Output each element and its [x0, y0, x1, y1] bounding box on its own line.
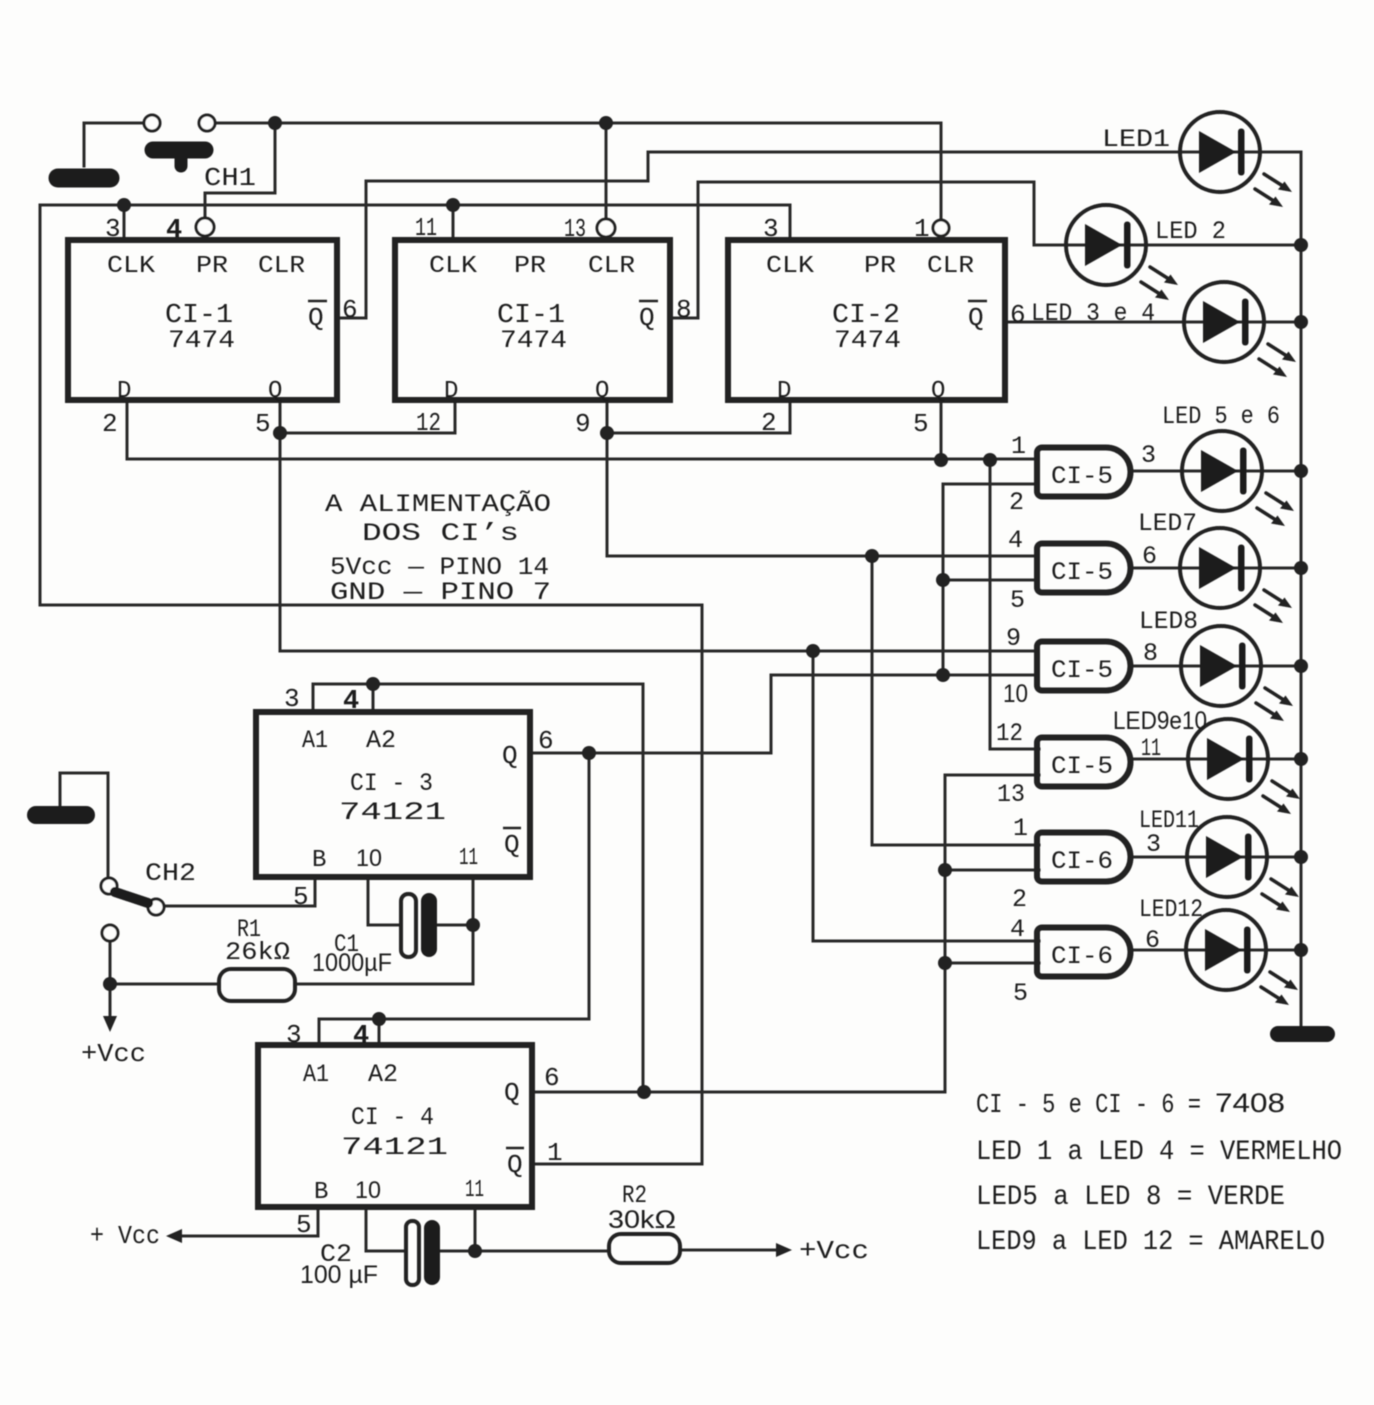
svg-text:A1: A1 [303, 1060, 329, 1089]
svg-text:CLR: CLR [927, 253, 974, 280]
svg-text:LED1: LED1 [1102, 125, 1170, 154]
svg-text:5: 5 [913, 409, 929, 439]
svg-text:CI-5: CI-5 [1051, 752, 1113, 781]
svg-text:5: 5 [296, 1210, 312, 1240]
svg-text:D: D [777, 378, 791, 405]
svg-text:CLK: CLK [429, 253, 478, 280]
svg-text:PR: PR [514, 253, 546, 280]
svg-text:Q: Q [502, 741, 518, 771]
svg-text:11: 11 [465, 1177, 484, 1204]
svg-text:6: 6 [1142, 542, 1157, 571]
svg-text:CI - 3: CI - 3 [350, 769, 433, 798]
svg-text:LED 1 a LED 4 = VERMELHO: LED 1 a LED 4 = VERMELHO [976, 1137, 1342, 1168]
svg-text:Q: Q [504, 1078, 520, 1108]
svg-text:1: 1 [1011, 432, 1026, 461]
svg-text:5: 5 [293, 882, 309, 912]
svg-text:3: 3 [286, 1020, 302, 1050]
svg-text:8: 8 [1143, 639, 1158, 668]
svg-text:CI-5: CI-5 [1051, 558, 1113, 587]
svg-text:6: 6 [1010, 300, 1026, 330]
svg-text:Q: Q [504, 830, 520, 860]
svg-text:CI-6: CI-6 [1051, 847, 1113, 876]
svg-text:LED11: LED11 [1139, 806, 1199, 835]
svg-text:7474: 7474 [168, 326, 235, 355]
svg-text:6: 6 [1145, 926, 1160, 955]
svg-text:4: 4 [1008, 526, 1023, 555]
svg-text:Q: Q [308, 303, 324, 333]
svg-text:CLK: CLK [107, 253, 156, 280]
svg-text:D: D [444, 378, 458, 405]
svg-text:CI-5: CI-5 [1051, 462, 1113, 491]
svg-text:B: B [314, 1179, 328, 1206]
svg-text:11: 11 [1141, 734, 1161, 763]
svg-text:2: 2 [1009, 488, 1024, 517]
svg-text:2: 2 [102, 409, 118, 439]
svg-text:13: 13 [564, 214, 586, 244]
svg-text:A2: A2 [366, 726, 396, 755]
svg-text:12: 12 [416, 408, 441, 438]
svg-text:4: 4 [353, 1022, 369, 1052]
svg-text:GND — PINO 7: GND — PINO 7 [330, 578, 551, 607]
svg-text:1: 1 [914, 214, 930, 244]
svg-text:CI - 4: CI - 4 [351, 1103, 434, 1132]
svg-text:74121: 74121 [341, 1133, 448, 1162]
svg-text:LED 3 e 4: LED 3 e 4 [1031, 299, 1155, 328]
svg-text:74121: 74121 [339, 798, 446, 827]
svg-text:PR: PR [864, 253, 896, 280]
svg-text:Q: Q [639, 303, 655, 333]
svg-text:CLR: CLR [258, 253, 305, 280]
svg-text:B: B [312, 847, 326, 874]
svg-text:3: 3 [105, 214, 121, 244]
svg-text:LED5 a LED 8 = VERDE: LED5 a LED 8 = VERDE [976, 1182, 1285, 1213]
svg-text:1000µF: 1000µF [312, 949, 392, 977]
svg-text:Q: Q [595, 378, 609, 405]
svg-text:A2: A2 [368, 1060, 398, 1089]
svg-text:7408: 7408 [1215, 1088, 1285, 1118]
svg-text:4: 4 [166, 216, 182, 246]
svg-text:10: 10 [356, 845, 382, 872]
svg-text:4: 4 [343, 687, 359, 717]
svg-text:+Vcc: +Vcc [81, 1039, 146, 1069]
svg-text:1: 1 [547, 1138, 563, 1168]
svg-text:100 µF: 100 µF [300, 1261, 378, 1289]
svg-text:7474: 7474 [500, 326, 567, 355]
svg-text:7474: 7474 [834, 326, 901, 355]
svg-text:6: 6 [342, 295, 358, 325]
svg-text:CLK: CLK [766, 253, 815, 280]
svg-text:LED12: LED12 [1139, 895, 1203, 924]
svg-text:2: 2 [761, 408, 777, 438]
svg-text:5: 5 [1010, 586, 1025, 615]
svg-text:Q: Q [268, 378, 282, 405]
svg-text:LED9e10: LED9e10 [1113, 707, 1207, 735]
svg-text:6: 6 [538, 726, 554, 756]
svg-text:3: 3 [763, 214, 779, 244]
svg-text:8: 8 [676, 295, 692, 325]
svg-text:5: 5 [1013, 979, 1028, 1008]
svg-text:LED8: LED8 [1139, 607, 1198, 636]
svg-text:2: 2 [1012, 885, 1027, 914]
svg-text:LED 5 e 6: LED 5 e 6 [1162, 402, 1280, 431]
svg-text:D: D [117, 378, 131, 405]
svg-text:CLR: CLR [588, 253, 635, 280]
svg-text:CI-5: CI-5 [1051, 656, 1113, 685]
svg-text:DOS CI’s: DOS CI’s [362, 519, 519, 548]
svg-text:9: 9 [1006, 624, 1021, 653]
svg-text:30kΩ: 30kΩ [608, 1206, 676, 1234]
svg-text:+Vcc: +Vcc [799, 1236, 869, 1266]
svg-text:13: 13 [997, 780, 1025, 809]
svg-text:CH2: CH2 [145, 859, 196, 888]
svg-text:CH1: CH1 [204, 163, 256, 193]
svg-text:11: 11 [415, 213, 437, 243]
svg-text:Q: Q [968, 303, 984, 333]
svg-text:6: 6 [544, 1063, 560, 1093]
svg-text:+ Vcc: + Vcc [90, 1221, 160, 1251]
svg-text:10: 10 [355, 1177, 381, 1204]
svg-text:Q: Q [931, 378, 945, 405]
svg-text:CI-6: CI-6 [1051, 942, 1113, 971]
svg-text:1: 1 [1013, 814, 1028, 843]
svg-text:3: 3 [284, 684, 300, 714]
svg-text:PR: PR [196, 253, 228, 280]
svg-text:4: 4 [1010, 915, 1025, 944]
svg-text:Q: Q [507, 1150, 523, 1180]
svg-text:10: 10 [1003, 680, 1028, 708]
svg-text:9: 9 [575, 409, 591, 439]
svg-text:26kΩ: 26kΩ [225, 938, 290, 967]
svg-text:CI - 5 e CI - 6 =: CI - 5 e CI - 6 = [976, 1091, 1201, 1121]
svg-text:3: 3 [1141, 441, 1156, 470]
svg-text:LED9 a LED 12 = AMARELO: LED9 a LED 12 = AMARELO [976, 1227, 1325, 1258]
svg-text:A1: A1 [302, 726, 328, 755]
svg-text:LED7: LED7 [1138, 509, 1197, 538]
svg-text:A ALIMENTAÇÃO: A ALIMENTAÇÃO [325, 489, 551, 519]
svg-text:11: 11 [459, 845, 478, 872]
svg-text:5: 5 [255, 409, 271, 439]
svg-text:LED 2: LED 2 [1155, 217, 1226, 246]
svg-text:12: 12 [996, 719, 1023, 748]
